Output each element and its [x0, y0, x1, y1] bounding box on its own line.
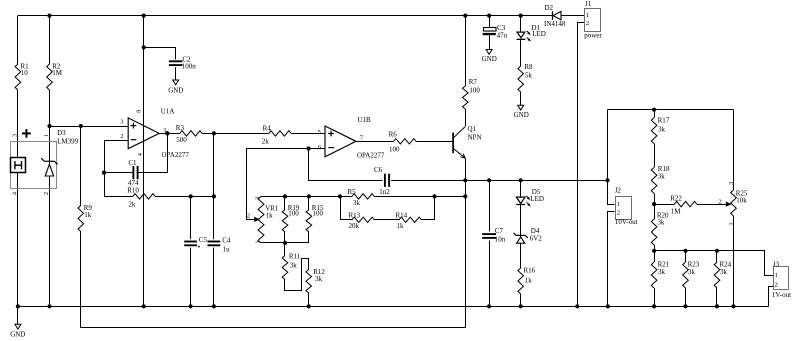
svg-text:10: 10 — [21, 69, 29, 77]
svg-text:R6: R6 — [389, 131, 398, 139]
junction (465.3,196.4) — [463, 194, 467, 198]
svg-text:1: 1 — [586, 12, 589, 19]
wire J3 pin 2 to ground — [769, 287, 774, 307]
svg-text:3k: 3k — [315, 275, 323, 283]
junction (717,250.8) — [715, 249, 719, 253]
svg-text:4: 4 — [12, 192, 18, 195]
svg-text:R13: R13 — [349, 211, 361, 219]
wire U1B pin 6 to VR1 wiper — [247, 149, 325, 220]
resistor R5 — [348, 188, 375, 207]
svg-text:1: 1 — [256, 241, 262, 244]
svg-text:R22: R22 — [670, 195, 682, 203]
svg-text:R10: R10 — [127, 187, 139, 195]
resistor R2 — [47, 63, 63, 90]
wire ground rail — [18, 306, 769, 308]
svg-text:1n2: 1n2 — [379, 188, 390, 196]
svg-text:10k: 10k — [736, 196, 747, 204]
svg-text:U1B: U1B — [358, 116, 372, 124]
junction (143.7,47.4) — [142, 45, 146, 49]
svg-text:2: 2 — [718, 198, 721, 205]
connector J3 — [772, 260, 791, 298]
wire U1A output — [159, 133, 180, 135]
svg-text:D3: D3 — [57, 129, 66, 137]
wire bottom feedback run — [81, 327, 466, 329]
svg-text:C7: C7 — [495, 227, 504, 235]
resistor R14 — [396, 211, 422, 230]
junction (654.1,204.1) — [652, 202, 656, 206]
svg-text:3: 3 — [256, 197, 262, 200]
LED D5 — [516, 188, 544, 206]
svg-text:3: 3 — [729, 182, 735, 185]
svg-text:U1A: U1A — [161, 108, 175, 116]
junction (717,306.3) — [715, 304, 719, 308]
svg-text:LM399: LM399 — [57, 138, 79, 146]
ground (bottom left) — [10, 306, 25, 338]
svg-text:R11: R11 — [289, 253, 301, 261]
svg-text:2: 2 — [617, 210, 620, 217]
svg-text:100: 100 — [288, 210, 299, 218]
svg-text:GND: GND — [514, 111, 529, 119]
junction (104,172.6) — [102, 171, 106, 175]
connector J1 — [584, 0, 602, 40]
wire R22 leads — [654, 204, 727, 206]
wire R3/R4 junction vertical — [213, 133, 215, 306]
svg-text:3: 3 — [12, 134, 18, 137]
svg-text:R5: R5 — [348, 188, 357, 196]
svg-text:1k: 1k — [84, 211, 92, 219]
junction (607.8,306.3) — [606, 304, 610, 308]
svg-text:R3: R3 — [176, 124, 185, 132]
svg-text:1: 1 — [775, 272, 778, 279]
junction (607.5,180.3) — [605, 178, 609, 182]
svg-text:1M: 1M — [671, 208, 682, 216]
wire J1 pin 2 to ground — [578, 23, 585, 307]
wire C1 branch — [104, 134, 168, 173]
junction (49.5,126) — [47, 124, 51, 128]
svg-text:C1: C1 — [128, 159, 137, 167]
resistor R7 — [463, 78, 481, 109]
junction (654.1,109.7) — [652, 108, 656, 112]
junction (143.7,15.6) — [142, 14, 146, 18]
svg-text:C5: C5 — [199, 236, 208, 244]
capacitor C3 (polarized) — [483, 24, 508, 39]
junction (577.3,306.3) — [575, 304, 579, 308]
svg-text:47u: 47u — [497, 31, 508, 39]
resistor R8 — [518, 63, 533, 92]
svg-text:1: 1 — [44, 134, 50, 137]
svg-text:3k: 3k — [658, 126, 666, 134]
wire R20 leads — [654, 204, 656, 251]
junction (143.7,306.3) — [142, 304, 146, 308]
wire U1B output to Q1 base — [356, 141, 453, 143]
resistor R12 — [306, 268, 325, 293]
svg-text:C4: C4 — [222, 237, 231, 245]
wire R10 branch — [104, 196, 214, 198]
op-amp U1A — [120, 108, 189, 160]
wire R24 leads — [716, 251, 718, 306]
svg-text:3k: 3k — [658, 172, 666, 180]
svg-text:Q1: Q1 — [468, 125, 477, 133]
junction (489.1,15.6) — [487, 14, 491, 18]
resistor R10 — [127, 187, 155, 209]
junction (285,196.4) — [283, 194, 287, 198]
capacitor C6 — [374, 166, 390, 196]
wire C3 branch — [489, 16, 491, 50]
svg-text:J3: J3 — [773, 260, 780, 268]
wire C5 vertical — [190, 196, 192, 306]
wire R7 collector branch — [465, 16, 467, 127]
ground (C2) — [168, 80, 183, 95]
junction (190.6,196.4) — [189, 194, 193, 198]
resistor R13 — [349, 211, 375, 230]
junction (520.7,180.3) — [519, 178, 523, 182]
junction U1A output — [165, 131, 169, 135]
svg-text:J1: J1 — [585, 0, 592, 8]
resistor R3 — [176, 124, 202, 144]
svg-text:6V2: 6V2 — [530, 234, 543, 242]
svg-text:power: power — [584, 32, 602, 40]
svg-text:1u: 1u — [223, 245, 231, 253]
svg-text:3k: 3k — [657, 219, 665, 227]
svg-text:GND: GND — [482, 55, 497, 63]
capacitor C4 — [208, 237, 231, 254]
junction (434.5,196.4) — [432, 194, 436, 198]
resistor R19 — [282, 204, 300, 232]
junction (685.5,306.3) — [683, 304, 687, 308]
svg-text:OPA2277: OPA2277 — [162, 151, 190, 159]
svg-text:R16: R16 — [524, 267, 536, 275]
svg-text:2: 2 — [775, 281, 778, 288]
svg-text:GND: GND — [10, 331, 25, 339]
resistor R11 — [282, 253, 301, 280]
wire C7 branch — [489, 180, 491, 306]
resistor R15 — [306, 204, 324, 232]
svg-text:R14: R14 — [396, 211, 408, 219]
svg-text:3k: 3k — [688, 268, 696, 276]
wire R4 to U1B pin 5 — [291, 133, 325, 135]
wire U1A supply vertical — [143, 16, 145, 307]
wire R25 bottom lead — [733, 216, 735, 306]
svg-text:10V-out: 10V-out — [615, 218, 638, 226]
wire 10V distribution rail — [608, 109, 734, 111]
svg-text:2k: 2k — [262, 138, 270, 146]
resistor R1 — [15, 63, 29, 90]
capacitor C2 — [169, 55, 196, 70]
junction (213.9,306.3) — [212, 304, 216, 308]
svg-text:4: 4 — [138, 153, 144, 156]
junction (190.6,306.3) — [189, 304, 193, 308]
svg-text:1k: 1k — [525, 276, 533, 284]
wire R17 ladder — [654, 110, 656, 204]
svg-text:D2: D2 — [545, 4, 554, 12]
wire R19 leads — [284, 196, 286, 243]
svg-text:3k: 3k — [290, 261, 298, 269]
wire R25 top lead — [733, 110, 735, 190]
resistor R18 — [651, 165, 670, 194]
svg-text:100n: 100n — [182, 62, 197, 70]
wire R2/zener vertical — [49, 16, 51, 307]
svg-text:OPA2277: OPA2277 — [357, 152, 385, 160]
resistor R20 — [651, 212, 669, 246]
svg-text:20k: 20k — [349, 222, 360, 230]
wire C2 tap — [144, 48, 176, 81]
svg-text:1M: 1M — [52, 69, 63, 77]
junction (465.3,15.6) — [463, 14, 467, 18]
LED D1 — [517, 24, 546, 41]
junction (654.1,306.3) — [652, 304, 656, 308]
zener diode D4 — [514, 227, 543, 243]
svg-text:C6: C6 — [374, 166, 383, 174]
potentiometer R25 — [718, 182, 747, 226]
junction (308.5,148.5) — [306, 146, 310, 150]
svg-text:1V-out: 1V-out — [772, 291, 791, 299]
junction (685.5,250.8) — [683, 249, 687, 253]
svg-text:10n: 10n — [495, 236, 506, 244]
junction (167.3,133.4) — [165, 131, 169, 135]
junction (733.5,306.3) — [731, 304, 735, 308]
junction (80.8,126) — [79, 124, 83, 128]
svg-text:3k: 3k — [353, 199, 361, 207]
svg-text:LED: LED — [532, 30, 546, 38]
svg-text:LED: LED — [530, 195, 544, 203]
wire R11-R12 jog — [285, 243, 309, 306]
potentiometer VR1 — [247, 196, 279, 243]
junction (308.7,306.3) — [307, 304, 311, 308]
resistor R23 — [683, 261, 700, 288]
capacitor C7 — [482, 227, 506, 244]
svg-text:R4: R4 — [263, 125, 272, 133]
ground (C3) — [482, 49, 497, 63]
junction (49.5,306.3) — [47, 304, 51, 308]
resistor R24 — [714, 261, 731, 288]
junction (520.7,15.6) — [519, 14, 523, 18]
resistor R22 — [670, 195, 697, 216]
resistor R6 — [389, 131, 416, 154]
connector J2 — [615, 187, 638, 227]
wire divider line — [261, 196, 465, 198]
svg-text:100: 100 — [469, 87, 480, 95]
svg-text:IN4148: IN4148 — [544, 20, 566, 28]
svg-text:2: 2 — [586, 20, 589, 27]
junction (489.1,306.3) — [487, 304, 491, 308]
wire LM399 output to U1A pin 3 — [50, 126, 129, 128]
transistor Q1 — [453, 125, 481, 158]
wire R3 to R4 — [202, 133, 269, 135]
svg-text:R7: R7 — [469, 78, 478, 86]
wire left vertical (R1 branch) — [17, 16, 19, 307]
wire D5/D4/R16 branch — [520, 180, 522, 306]
wire top supply rail — [18, 15, 553, 17]
wire R15 leads — [308, 196, 310, 243]
resistor R21 — [651, 261, 669, 288]
svg-text:100: 100 — [389, 146, 400, 154]
diode D2 IN4148 — [544, 4, 566, 28]
svg-text:100: 100 — [313, 210, 324, 218]
wire 1V divider line to J3 pin 1 — [655, 251, 774, 276]
svg-text:R17: R17 — [658, 117, 670, 125]
svg-text:1k: 1k — [397, 222, 405, 230]
wire emitter vertical — [465, 158, 467, 327]
wire J2 pin 2 to ground — [608, 212, 615, 307]
svg-text:5k: 5k — [525, 72, 533, 80]
svg-text:3k: 3k — [658, 268, 666, 276]
svg-text:GND: GND — [168, 87, 183, 95]
junction (465.3,180.3) — [463, 178, 467, 182]
wire J2 pin 1 vertical — [608, 110, 615, 205]
resistor R16 — [518, 267, 536, 295]
junction (489.1,180.3) — [487, 178, 491, 182]
wire U1A pin 2 loop — [105, 141, 129, 197]
junction (308.9,196.4) — [307, 194, 311, 198]
wire D1/R8 branch — [520, 16, 522, 106]
svg-text:2: 2 — [247, 213, 250, 220]
junction (17.9,306.3) — [16, 304, 20, 308]
junction (520.7,306.3) — [519, 304, 523, 308]
svg-text:8: 8 — [137, 110, 143, 113]
capacitor C5 — [184, 236, 207, 247]
svg-text:1k: 1k — [266, 212, 274, 220]
svg-text:2: 2 — [120, 133, 123, 140]
wire R21 leads — [654, 251, 656, 306]
resistor R4 — [262, 125, 291, 146]
wire R23 leads — [685, 251, 687, 306]
reference diode D3 LM399 — [11, 129, 79, 195]
junction (340,196.4) — [338, 194, 342, 198]
wire R9 branch — [80, 126, 82, 328]
capacitor C1 — [128, 159, 139, 187]
svg-text:J2: J2 — [615, 187, 622, 195]
svg-text:3k: 3k — [720, 268, 728, 276]
svg-text:1: 1 — [617, 201, 620, 208]
svg-text:R8: R8 — [524, 63, 533, 71]
svg-text:2k: 2k — [128, 200, 136, 208]
junction (285,242.9) — [283, 241, 287, 245]
resistor R9 — [78, 204, 92, 231]
junction (49.5,15.6) — [47, 14, 51, 18]
ground (R8) — [514, 105, 529, 119]
wire VR1 bottom line — [261, 242, 309, 244]
junction (654.1,250.8) — [652, 249, 656, 253]
junction (213.9,196.4) — [212, 194, 216, 198]
resistor R17 — [651, 117, 669, 144]
wire D2 cathode to J1 pin 1 — [561, 15, 584, 17]
svg-text:NPN: NPN — [468, 133, 482, 141]
svg-text:2: 2 — [44, 192, 50, 195]
wire C6 branch / 10V rail — [309, 149, 608, 181]
junction (213.9,133.4) — [212, 131, 216, 135]
svg-text:1: 1 — [729, 223, 735, 226]
op-amp U1B — [318, 116, 385, 160]
wire R13/R14 branch — [341, 197, 435, 220]
svg-text:500: 500 — [176, 136, 187, 144]
